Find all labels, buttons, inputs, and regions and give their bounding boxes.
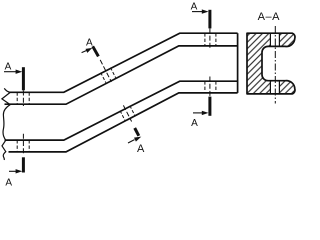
wire right end face <box>237 33 239 93</box>
node right cut thick stroke top <box>208 10 211 29</box>
svg-text:A: A <box>191 2 198 13</box>
wire bottom flange outer edge <box>9 93 238 152</box>
wire right cut arrow bottom <box>193 111 209 115</box>
wire middle hole hidden lines <box>101 68 135 121</box>
wire middle cut arrow top <box>82 48 93 53</box>
wire right hole hidden lines <box>205 33 216 93</box>
node section A-A outline <box>247 33 295 94</box>
wire top flange outer edge <box>9 33 238 92</box>
wire right cut arrow top <box>192 9 209 13</box>
wire middle cut chain line <box>100 60 131 122</box>
svg-text:A: A <box>137 143 145 155</box>
wire left cut arrow bottom <box>9 169 22 173</box>
wire left hole hidden lines <box>17 92 29 152</box>
svg-text:A: A <box>86 38 93 49</box>
node left cut thick stroke bottom <box>22 157 25 172</box>
wire top flange inner edge <box>5 46 238 104</box>
wire left break line <box>2 88 10 160</box>
wire middle cut arrow bottom <box>128 137 141 143</box>
node right cut thick stroke bottom <box>208 97 211 116</box>
svg-text:A: A <box>191 118 198 129</box>
wire section centerline <box>274 26 276 104</box>
wire right cut chain line <box>209 28 211 96</box>
svg-text:A–A: A–A <box>258 11 280 23</box>
wire section hole edges <box>270 33 279 94</box>
wire left cut chain line <box>22 91 24 154</box>
wire bottom flange inner edge <box>5 81 238 140</box>
node middle cut thick stroke bottom <box>135 128 139 136</box>
svg-text:A: A <box>5 178 12 189</box>
node middle cut thick stroke top <box>93 46 99 56</box>
node left cut thick stroke top <box>22 67 25 90</box>
wire left cut arrow top <box>4 70 22 74</box>
svg-text:A: A <box>5 61 12 72</box>
node section hole voids <box>271 34 279 45</box>
